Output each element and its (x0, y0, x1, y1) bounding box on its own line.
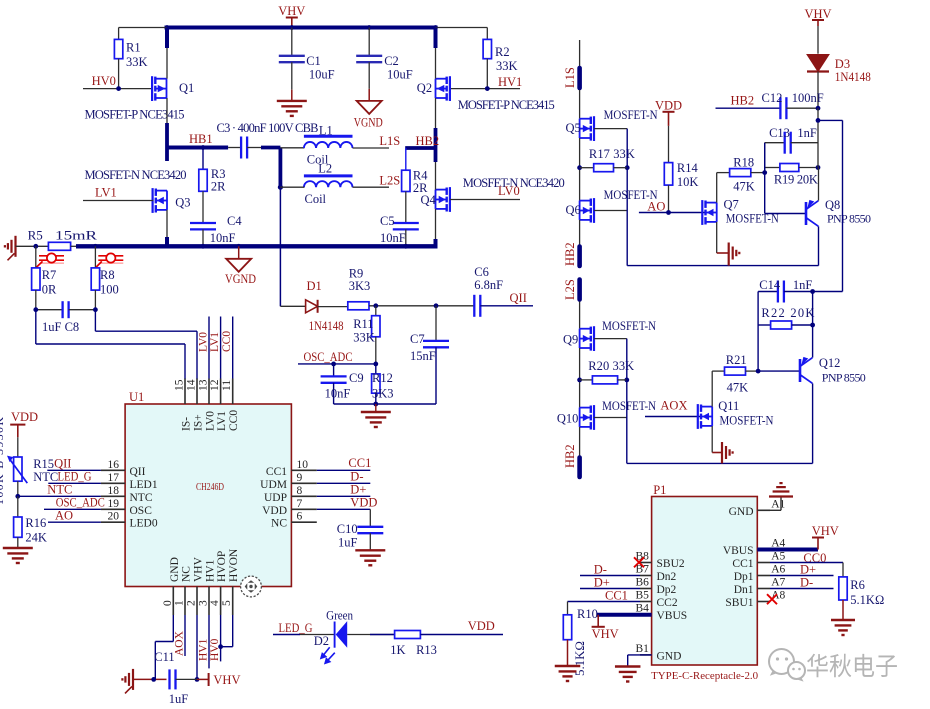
wire IS+ route (R8 to pin14) (94, 310, 96, 332)
svg-text:华秋电子: 华秋电子 (806, 653, 898, 681)
pin A8 (SBU1) P1 right (757, 601, 770, 603)
svg-text:QII: QII (54, 457, 71, 471)
pin 1 (NC) bottom (184, 587, 186, 616)
wire L1S stub (579, 40, 581, 66)
svg-text:100nF: 100nF (792, 91, 824, 105)
ground (C11, sideways) (132, 669, 134, 690)
svg-text:R22 20K: R22 20K (761, 306, 814, 320)
svg-text:AOX: AOX (660, 399, 687, 413)
svg-text:33K: 33K (126, 55, 148, 69)
pin 12 (LV1) top (220, 379, 222, 405)
svg-text:6.8nF: 6.8nF (474, 278, 503, 292)
wire HV0 (83, 88, 153, 90)
svg-text:17: 17 (108, 472, 120, 484)
wire A4 VBUS (757, 548, 818, 552)
svg-text:12: 12 (209, 379, 221, 391)
pin 5 (HVON) bottom (232, 587, 234, 616)
svg-text:8: 8 (297, 485, 303, 497)
transistor Q6 (593, 198, 595, 223)
svg-text:Q1: Q1 (179, 81, 194, 95)
resistor R17 (579, 138, 581, 201)
wire A7 Dn1 (770, 588, 834, 590)
node LV1 (pin12 stub) (220, 317, 222, 379)
svg-text:10nF: 10nF (210, 231, 236, 245)
svg-text:VDD: VDD (262, 505, 287, 517)
svg-text:3K3: 3K3 (349, 279, 371, 293)
svg-text:LED1: LED1 (130, 479, 158, 491)
svg-text:47K: 47K (727, 381, 749, 395)
crosshair marker (U1) (241, 576, 262, 597)
resistor R20 (579, 348, 581, 408)
svg-text:OSC_ADC: OSC_ADC (56, 496, 105, 510)
node VDD (pin7) (317, 508, 371, 510)
transistor Q10 (593, 405, 595, 430)
svg-text:Q7: Q7 (724, 198, 739, 212)
node AO (pin20) (48, 521, 101, 523)
svg-text:R5: R5 (28, 228, 43, 243)
svg-text:24K: 24K (25, 531, 47, 545)
resistor R7 (35, 246, 37, 268)
wire Q6 source stub (579, 220, 581, 245)
svg-text:D1: D1 (307, 279, 322, 293)
svg-text:VHV: VHV (812, 524, 839, 538)
wire B1 GND (628, 654, 652, 656)
wire L1S (353, 147, 390, 149)
svg-text:16: 16 (108, 459, 120, 471)
svg-text:VGND: VGND (225, 272, 256, 286)
svg-text:L1: L1 (319, 124, 333, 138)
svg-text:VBUS: VBUS (723, 545, 754, 557)
svg-text:B1: B1 (636, 643, 650, 655)
thermistor R15 (NTC) (17, 437, 19, 457)
svg-text:D+: D+ (594, 576, 610, 590)
node HV0 (pin4) (220, 615, 222, 661)
svg-text:MOSFET-N: MOSFET-N (602, 399, 656, 413)
node D- (pin9) (317, 482, 371, 484)
wire L2S (353, 186, 390, 188)
svg-text:CC0: CC0 (221, 331, 233, 352)
wire GND pin0 route (172, 615, 174, 642)
pin 9 (UDM) right (291, 482, 316, 484)
wire Q8 collector (818, 226, 820, 265)
svg-text:VDD: VDD (11, 410, 38, 424)
capacitor C13 (764, 143, 766, 173)
svg-text:1uF C8: 1uF C8 (42, 320, 79, 334)
svg-text:LED_G: LED_G (279, 621, 313, 635)
svg-text:100K B 3950K: 100K B 3950K (0, 417, 6, 505)
svg-text:R7: R7 (42, 268, 57, 282)
wire Q4 drain (435, 162, 437, 190)
wire Q9/Q10 gate vertical (626, 339, 628, 464)
svg-text:15mR: 15mR (55, 228, 97, 243)
svg-text:R1: R1 (126, 41, 141, 55)
wire HVON pin5 to HVOP (232, 615, 234, 647)
resistor R21 (725, 367, 746, 375)
svg-text:CC1: CC1 (348, 456, 371, 470)
svg-text:1K: 1K (390, 643, 405, 657)
transistor Q3 (152, 188, 154, 213)
wire Q8 emitter (818, 168, 820, 201)
pin B6 (Dp2) P1 left (640, 588, 652, 590)
node NTC (pin18) (18, 495, 101, 497)
resistor R14 (668, 126, 670, 163)
svg-text:10uF: 10uF (309, 67, 335, 81)
svg-text:IS+: IS+ (193, 414, 205, 431)
svg-text:D3: D3 (835, 57, 850, 71)
svg-text:C13: C13 (769, 126, 790, 140)
svg-text:C6: C6 (474, 265, 489, 279)
resistor R9 (318, 306, 348, 308)
svg-text:MOSFET-N: MOSFET-N (604, 108, 658, 122)
wire LV0 (450, 199, 520, 201)
LED D2 (334, 622, 336, 648)
svg-text:5: 5 (221, 600, 233, 606)
wire bus left (16, 245, 49, 247)
svg-text:C11: C11 (154, 650, 174, 664)
svg-text:VDD: VDD (468, 619, 495, 633)
resistor R12 (375, 364, 377, 374)
transistor Q7 (701, 200, 703, 225)
wire R9 to C6 (369, 305, 474, 307)
svg-text:R19 20K: R19 20K (774, 173, 818, 187)
wire lower block bottom bus (627, 462, 813, 464)
svg-text:HB1: HB1 (189, 132, 213, 146)
svg-text:Q2: Q2 (417, 81, 432, 95)
svg-text:C9: C9 (349, 371, 364, 385)
svg-text:HB2: HB2 (563, 242, 577, 266)
no-connect X (B8) (634, 557, 644, 567)
resistor R5 (48, 242, 70, 250)
pin 8 (UDP) right (291, 495, 316, 497)
svg-text:1uF: 1uF (169, 692, 189, 706)
svg-text:2: 2 (186, 600, 198, 606)
svg-text:HV1: HV1 (498, 75, 522, 89)
svg-text:L2S: L2S (379, 173, 400, 187)
capacitor C7 (435, 306, 437, 341)
svg-text:D+: D+ (350, 483, 366, 497)
svg-text:L2: L2 (318, 161, 332, 175)
svg-text:10K: 10K (677, 175, 699, 189)
wire HV1 (450, 88, 520, 90)
svg-text:Q3: Q3 (175, 196, 190, 210)
svg-text:Dn2: Dn2 (657, 571, 677, 583)
svg-text:2R: 2R (211, 180, 226, 194)
svg-text:R12: R12 (372, 371, 393, 385)
svg-text:L1S: L1S (563, 67, 577, 88)
pin 19 (OSC) left (101, 508, 125, 510)
resistor R4 (405, 148, 407, 170)
resistor R1 (119, 27, 167, 29)
wire Q12 emitter (812, 292, 814, 358)
wire IS- route (R7 to pin15) (35, 310, 37, 344)
svg-text:R6: R6 (850, 578, 865, 592)
svg-text:NTC: NTC (130, 492, 153, 504)
wire HB1 bus (167, 146, 228, 150)
ground (R10) (555, 665, 581, 667)
wire A5 CC1 to R6 (770, 562, 843, 564)
pin 17 (LED1) left (101, 482, 125, 484)
wire Q1 drain (166, 28, 168, 79)
wire L2 left (280, 186, 304, 188)
svg-text:AO: AO (55, 509, 73, 523)
svg-text:AO: AO (647, 200, 665, 214)
svg-text:OSC: OSC (130, 505, 153, 517)
wire C13/R18 junction to Q8 base (764, 143, 766, 214)
pin A6 (Dp1) P1 right (757, 575, 770, 577)
svg-text:HB2: HB2 (416, 134, 440, 148)
ground (R12) (375, 404, 377, 412)
svg-text:PNP 8550: PNP 8550 (822, 371, 866, 385)
power flag VHV (C11) (197, 678, 209, 680)
svg-text:MOSFET-N: MOSFET-N (602, 319, 656, 333)
wire top rail VHV (165, 26, 438, 30)
svg-text:LV0: LV0 (198, 332, 210, 352)
capacitor C9 (333, 364, 335, 377)
resistor R3 (202, 148, 204, 170)
svg-text:Q4: Q4 (421, 193, 437, 207)
resistor R2 (436, 27, 488, 29)
pin A7 (Dn1) P1 right (757, 588, 770, 590)
ground (far left, sideways) (14, 236, 16, 257)
svg-text:VHV: VHV (592, 627, 619, 641)
svg-text:C5: C5 (380, 214, 395, 228)
capacitor C8 (36, 309, 63, 311)
svg-text:GND: GND (657, 650, 682, 662)
capacitor C14 (758, 291, 778, 293)
transistor Q11 (697, 404, 699, 429)
svg-text:HB2: HB2 (731, 94, 755, 108)
resistor R22 (758, 324, 771, 326)
wire AOX (645, 416, 701, 418)
svg-text:R21: R21 (726, 353, 747, 367)
node LV0 (pin13 stub) (208, 317, 210, 379)
svg-text:D-: D- (594, 563, 607, 577)
svg-text:D-: D- (350, 470, 363, 484)
svg-text:Q5: Q5 (566, 121, 581, 135)
node OSC_ADC (pin19) (44, 508, 101, 510)
svg-text:UDP: UDP (264, 492, 287, 504)
wire OSC_ADC (298, 363, 376, 365)
power flag VHV (A4) (817, 538, 819, 550)
svg-text:Q9: Q9 (563, 333, 578, 347)
svg-text:1N4148: 1N4148 (309, 319, 344, 333)
wire Q10 source stub (579, 427, 581, 456)
wire Q2 source to HB2 (435, 98, 437, 162)
transistor Q2 (449, 76, 451, 101)
ground (Q7, sideways) (716, 222, 718, 253)
capacitor C10 (369, 509, 371, 527)
capacitor C4 (190, 222, 216, 224)
svg-text:Q12: Q12 (819, 356, 841, 370)
svg-text:R2: R2 (495, 45, 510, 59)
svg-text:13: 13 (198, 379, 210, 391)
svg-text:4: 4 (209, 600, 221, 606)
wire Q9 gate (594, 338, 627, 340)
svg-text:VBUS: VBUS (657, 610, 688, 622)
svg-text:B5: B5 (636, 590, 650, 602)
svg-text:VDD: VDD (350, 496, 377, 510)
svg-text:CC2: CC2 (657, 597, 678, 609)
svg-text:0R: 0R (42, 283, 57, 297)
node AOX (pin1) (184, 615, 186, 656)
svg-text:R14: R14 (677, 161, 699, 175)
capacitor C1 (291, 28, 293, 56)
pin 0 (GND) bottom (172, 587, 174, 616)
svg-text:LV0: LV0 (205, 411, 217, 431)
wire Q5 gate (594, 128, 627, 130)
resistor R16 (17, 496, 19, 517)
svg-text:R15: R15 (33, 457, 54, 471)
pin 3 (HV1) bottom (208, 587, 210, 616)
wire LV1 (83, 200, 153, 202)
power symbol VGND (C2) (357, 101, 382, 114)
svg-text:VHV: VHV (804, 7, 831, 21)
wire Q6 gate (594, 210, 627, 212)
capacitor C6 (473, 295, 475, 317)
wire B6 Dp2 (580, 588, 640, 590)
pin 14 (IS+) top (196, 379, 198, 405)
svg-text:Dn1: Dn1 (734, 584, 754, 596)
wire Q1 source to HB1 (166, 98, 168, 148)
wire R13 to VDD (420, 634, 503, 636)
wire LED_G (273, 634, 300, 636)
wire C9/R12 bottom (334, 403, 436, 405)
svg-text:C3 · 400nF 100V CBB: C3 · 400nF 100V CBB (217, 121, 319, 135)
pin A4 (VBUS) P1 right (757, 549, 770, 551)
ground (C10) (355, 549, 385, 551)
ground (C1) (277, 100, 307, 102)
svg-text:HVON: HVON (228, 548, 240, 582)
wire HB2 bus (405, 146, 435, 150)
svg-text:D+: D+ (800, 563, 816, 577)
pin A5 (CC1) P1 right (757, 562, 770, 564)
svg-text:C4: C4 (227, 214, 242, 228)
pin B7 (Dn2) P1 left (640, 575, 652, 577)
svg-text:AOX: AOX (174, 630, 186, 656)
svg-text:TYPE-C-Receptacle-2.0: TYPE-C-Receptacle-2.0 (651, 670, 758, 682)
svg-text:SBU2: SBU2 (657, 558, 685, 570)
svg-text:A6: A6 (771, 564, 785, 576)
svg-text:OSC_ADC: OSC_ADC (304, 350, 353, 364)
probe marker (R7) (39, 255, 64, 257)
svg-text:IS-: IS- (181, 417, 193, 431)
ground (R6) (831, 619, 855, 621)
svg-text:GND: GND (729, 506, 754, 518)
svg-text:VHV: VHV (213, 673, 240, 687)
svg-text:LV1: LV1 (209, 332, 221, 352)
node QII (pin16) (47, 469, 101, 471)
no-connect X (A8) (767, 594, 777, 604)
svg-text:Coil: Coil (305, 192, 327, 206)
svg-text:NC: NC (271, 518, 287, 530)
node LED_G (pin17) (48, 482, 101, 484)
svg-text:NTC: NTC (33, 470, 58, 484)
svg-text:CC0: CC0 (228, 410, 240, 431)
capacitor C11 (133, 678, 167, 680)
svg-text:PNP 8550: PNP 8550 (827, 212, 871, 226)
svg-text:33K: 33K (496, 59, 518, 73)
svg-text:MOSFET-N: MOSFET-N (720, 414, 774, 428)
svg-text:LV1: LV1 (216, 411, 228, 431)
svg-text:QII: QII (130, 466, 146, 478)
svg-text:Green: Green (326, 609, 354, 623)
resistor R10 (563, 615, 571, 640)
svg-text:CC1: CC1 (732, 558, 753, 570)
wire Q3 source to bus (166, 210, 168, 246)
pin B8 (SBU2) P1 left (640, 562, 652, 564)
ground (R16) (3, 547, 33, 549)
wire AO (639, 212, 705, 214)
wire Q5/Q6 gate vertical (626, 129, 628, 266)
pin 20 (LED0) left (101, 521, 125, 523)
capacitor C12 (716, 107, 781, 109)
svg-text:R8: R8 (100, 268, 115, 282)
wire R21/R22 junction vertical (757, 292, 759, 372)
pin B1 (GND) P1 left (640, 654, 652, 656)
svg-text:VHV: VHV (193, 556, 205, 582)
diode D1 (280, 305, 305, 307)
pin 2 (VHV) bottom (196, 587, 198, 616)
svg-text:19: 19 (108, 498, 120, 510)
svg-text:HV0: HV0 (209, 638, 221, 661)
wire C3 to coils (247, 147, 262, 149)
svg-text:UDM: UDM (260, 479, 287, 491)
power flag VHV (B4) (597, 615, 599, 627)
svg-text:HVOP: HVOP (216, 551, 228, 582)
pin 7 (VDD) right (291, 508, 316, 510)
svg-text:NTC: NTC (47, 483, 72, 497)
svg-text:HV0: HV0 (92, 74, 116, 88)
svg-text:3K3: 3K3 (372, 387, 394, 401)
svg-text:18: 18 (108, 485, 120, 497)
pin B4 (VBUS) P1 left (640, 614, 652, 616)
svg-text:9: 9 (297, 472, 303, 484)
pin 13 (LV0) top (208, 379, 210, 405)
svg-text:VDD: VDD (655, 99, 682, 113)
svg-text:Dp1: Dp1 (734, 571, 754, 583)
svg-text:U1: U1 (129, 390, 144, 404)
svg-text:D2: D2 (314, 634, 329, 648)
svg-text:HV1: HV1 (198, 638, 210, 661)
pin 15 (IS-) top (184, 379, 186, 405)
svg-text:R10: R10 (577, 607, 598, 621)
svg-text:C7: C7 (410, 332, 425, 346)
svg-text:20: 20 (108, 511, 120, 523)
svg-text:CC1: CC1 (266, 466, 287, 478)
svg-text:MOSFET-P NCE3415: MOSFET-P NCE3415 (458, 98, 555, 112)
diode D3 (817, 26, 819, 54)
svg-text:MOSFET-P NCE3415: MOSFET-P NCE3415 (85, 108, 185, 122)
svg-text:47K: 47K (733, 180, 755, 194)
svg-text:Q6: Q6 (566, 203, 581, 217)
wire D3 branch down (817, 108, 819, 167)
transistor Q9 (593, 326, 595, 351)
ground (Q11, sideways) (711, 426, 713, 453)
inductor L1 (280, 147, 304, 149)
wire A6 Dp1 (770, 575, 834, 577)
node D+ (pin8) (317, 495, 371, 497)
svg-text:R11: R11 (353, 317, 373, 331)
connector P1 body (652, 497, 758, 666)
resistor R19 (765, 167, 780, 169)
svg-text:11: 11 (221, 380, 233, 391)
pin 10 (CC1) right (291, 469, 316, 471)
resistor R8 (94, 246, 96, 268)
wire HB1 to L2/D1 (vertical) (278, 148, 282, 188)
svg-text:1nF: 1nF (793, 278, 813, 292)
svg-text:1: 1 (174, 600, 186, 606)
wire Q10 gate (594, 417, 627, 419)
